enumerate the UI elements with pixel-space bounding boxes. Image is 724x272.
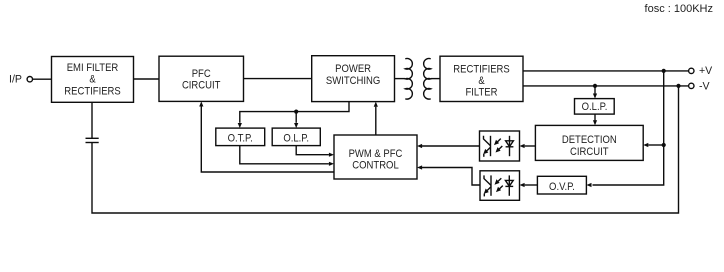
wire O.V.P. to optocoupler U2 with arrow: [520, 183, 538, 187]
transformer T1 primary winding: [405, 59, 412, 100]
wire optocoupler U1 to PWM with arrow: [417, 144, 480, 148]
wire POWER SWITCHING bottom to OTP/OLP sense line: [240, 102, 349, 123]
wire right rail from +V junction down: [593, 71, 664, 185]
svg-text:fosc : 100KHz: fosc : 100KHz: [645, 3, 713, 15]
svg-text:-V: -V: [699, 81, 711, 93]
svg-text:RECTIFIERS: RECTIFIERS: [64, 85, 121, 97]
wire -V rail: [523, 85, 689, 87]
svg-text:FILTER: FILTER: [466, 86, 498, 98]
svg-text:CIRCUIT: CIRCUIT: [182, 79, 221, 91]
block O.L.P. (secondary): [575, 99, 615, 115]
wire PWM control up to POWER SWITCHING with arrow: [374, 102, 378, 135]
svg-text:CONTROL: CONTROL: [352, 159, 399, 171]
junction on +V rail: [662, 69, 666, 73]
wire EMI to PFC: [134, 78, 160, 80]
wire OLP down to DETECTION with arrow: [593, 114, 597, 125]
block EMI FILTER & RECTIFIERS: [52, 57, 134, 103]
wire junction down to OLP primary with arrow: [294, 112, 298, 129]
wire POWER SWITCHING to transformer primary: [395, 78, 406, 80]
svg-text:+V: +V: [699, 65, 713, 77]
wire rail to DETECTION with arrow: [643, 143, 664, 147]
junction -V to OLP sense: [593, 84, 597, 88]
optocoupler U2: [480, 171, 520, 201]
svg-text:DETECTION: DETECTION: [562, 134, 617, 146]
wire capacitor to EMI block bottom: [91, 102, 93, 138]
svg-text:O.L.P.: O.L.P.: [283, 132, 309, 144]
svg-text:CIRCUIT: CIRCUIT: [570, 146, 609, 158]
transformer T1 secondary winding: [424, 59, 431, 100]
svg-text:EMI FILTER: EMI FILTER: [67, 62, 119, 74]
junction sense line to OLP primary: [294, 110, 298, 114]
svg-text:RECTIFIERS: RECTIFIERS: [453, 63, 510, 75]
svg-text:&: &: [89, 74, 95, 86]
wire OLP primary to PWM control with arrow: [296, 146, 334, 157]
svg-text:PFC: PFC: [192, 68, 211, 80]
junction -V to return rail: [676, 84, 680, 88]
svg-text:I/P: I/P: [9, 74, 22, 86]
wire return rail -V down and bottom return to capacitor: [92, 86, 679, 213]
arrow rail into O.V.P.: [586, 183, 591, 187]
arrow into O.T.P. top: [238, 123, 242, 128]
junction right rail at detection level: [662, 143, 666, 147]
wire DETECTION to optocoupler U1 with arrow: [520, 144, 536, 148]
svg-text:O.V.P.: O.V.P.: [549, 181, 575, 193]
wire -V junction down to OLP with arrow: [593, 86, 597, 99]
terminal -V: [689, 81, 711, 93]
optocoupler U1: [480, 131, 520, 161]
wire PFC to POWER SWITCHING: [244, 78, 312, 80]
block O.V.P.: [537, 176, 586, 194]
wire transformer secondary to RECTIFIERS: [431, 78, 440, 80]
block RECTIFIERS & FILTER: [440, 56, 523, 101]
capacitor C1 plates: [86, 138, 99, 142]
wire +V rail: [523, 70, 689, 72]
wire OTP to PWM control with arrow: [240, 146, 334, 166]
svg-text:PWM & PFC: PWM & PFC: [349, 148, 403, 160]
svg-text:SWITCHING: SWITCHING: [326, 75, 380, 87]
svg-text:O.T.P.: O.T.P.: [228, 132, 253, 144]
svg-text:&: &: [478, 75, 484, 87]
block O.L.P. (primary): [272, 128, 320, 146]
terminal +V: [689, 65, 714, 77]
block DETECTION CIRCUIT: [535, 125, 643, 160]
svg-text:O.L.P.: O.L.P.: [582, 101, 608, 113]
wire I/P to EMI filter: [33, 78, 52, 80]
block POWER SWITCHING: [312, 56, 395, 102]
svg-text:POWER: POWER: [335, 63, 371, 75]
wire optocoupler U2 to PWM with arrow: [417, 165, 480, 185]
block O.T.P.: [216, 128, 265, 146]
wire PWM control to PFC circuit with arrow: [199, 101, 334, 172]
terminal I/P: [9, 74, 32, 86]
block PWM & PFC CONTROL: [334, 135, 417, 179]
block PFC CIRCUIT: [159, 56, 244, 101]
